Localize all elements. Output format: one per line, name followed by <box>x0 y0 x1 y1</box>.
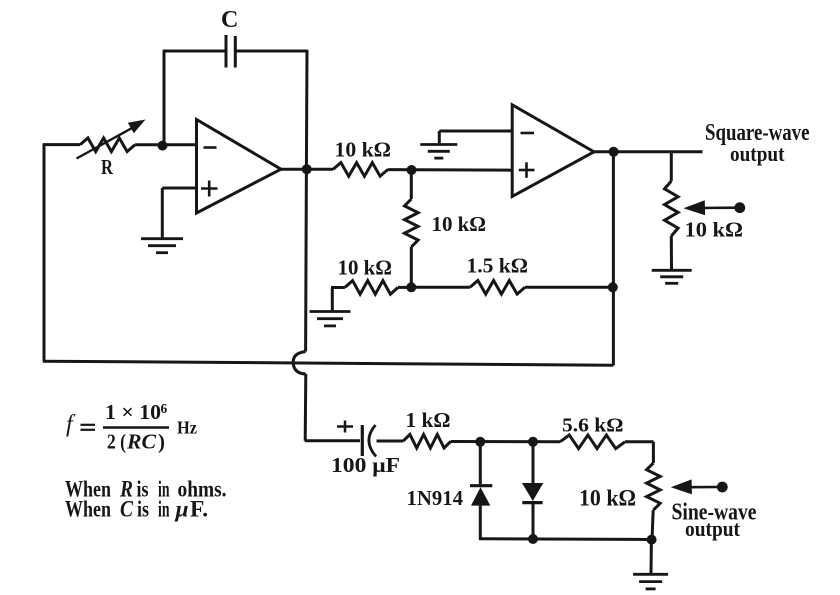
diode D2 triangle (pointing down) <box>522 483 543 501</box>
node dot at divider bottom junction <box>406 282 416 292</box>
label 10 kOhm (square pot) <box>685 218 744 242</box>
ground under U1 non-inverting input <box>141 239 183 253</box>
label 1N914 <box>407 486 464 510</box>
wire divider bottom junction to 1.5k <box>411 286 470 289</box>
svg-text:output: output <box>685 516 740 541</box>
svg-text:10 kΩ: 10 kΩ <box>338 256 393 280</box>
wire square pot bottom lead <box>670 236 673 270</box>
diode D1 1N914 triangle <box>471 487 490 505</box>
wire U2 output <box>593 150 703 153</box>
wire resistor to U2 plus input <box>388 168 513 172</box>
svg-text:f: f <box>66 412 76 438</box>
wire diode D2 top lead <box>532 442 535 483</box>
label output (sine) <box>685 516 740 541</box>
wire vertical below hop down to sine section <box>304 374 308 441</box>
diode D1 1N914 (pointing up) cathode bar <box>470 484 492 487</box>
wire 1.5k to U2 output vertical <box>525 286 613 289</box>
wire crossover hop over feedback wire <box>293 352 306 375</box>
label 1 kOhm <box>406 408 451 432</box>
wire U1 non-inverting input to ground <box>162 188 196 238</box>
wire feedback-loop top-left vertical <box>163 51 166 146</box>
op-amp U1 minus sign (inverting input) <box>204 146 217 149</box>
svg-text:10 kΩ: 10 kΩ <box>335 138 392 162</box>
svg-text:Hz: Hz <box>177 418 197 438</box>
op-amp U2 triangle <box>512 105 594 197</box>
svg-text:10 kΩ: 10 kΩ <box>579 486 636 511</box>
ground under sine pot <box>633 574 668 589</box>
wire 5.6k to sine pot top <box>625 442 654 463</box>
wire U2 inverting input to ground <box>439 131 512 145</box>
potentiometer 10k (sine) zigzag <box>647 463 661 510</box>
label R <box>101 155 113 179</box>
resistor 10k vertical (divider) <box>405 199 419 247</box>
node dot at sine pot bottom <box>647 535 657 545</box>
wire feedback-loop top horizontal right of C <box>235 50 307 53</box>
wire diode D1 anode lead <box>479 442 482 484</box>
capacitor 100uF polarity plus sign <box>337 421 353 433</box>
ground at left of grounded 10k resistor <box>310 312 351 326</box>
formula Hz <box>177 418 197 438</box>
op-amp U2 minus sign (inverting input) <box>521 132 535 135</box>
svg-text:10 kΩ: 10 kΩ <box>432 212 487 236</box>
wire far-left vertical <box>43 144 46 362</box>
svg-text:2 (: 2 ( <box>107 430 126 454</box>
formula fraction bar <box>103 426 169 428</box>
resistor 10k horizontal from U1 output <box>333 163 388 177</box>
svg-text:R: R <box>101 155 113 179</box>
wire U2 output vertical feedback <box>612 152 615 366</box>
svg-text:is: is <box>137 497 149 523</box>
svg-text:5.6 kΩ: 5.6 kΩ <box>562 415 624 437</box>
formula numerator 1 x 10^6 <box>105 400 168 424</box>
wire R to U1 inverting input <box>135 143 197 146</box>
resistor 1.5k horizontal <box>470 281 525 295</box>
wire diode D2 bottom lead <box>532 503 535 540</box>
op-amp U1 plus sign (non-inverting input) <box>201 181 218 197</box>
diode D2 cathode bar <box>522 501 542 504</box>
resistor 5.6k horizontal <box>560 435 625 449</box>
potentiometer 10k (square) zigzag <box>665 181 679 236</box>
svg-text:F.: F. <box>190 497 208 523</box>
wire hop bottom to capacitor <box>305 439 360 442</box>
resistor 1k horizontal <box>403 434 451 448</box>
node dot at U2 output <box>609 147 619 157</box>
ground under square pot <box>652 270 692 283</box>
svg-text:C: C <box>120 497 133 523</box>
resistor 10k horizontal grounded <box>345 281 398 295</box>
formula f = <box>66 412 95 438</box>
label 100 uF <box>331 453 400 477</box>
wire op-amp U1 output vertical down to crossover <box>304 169 308 352</box>
wire 1k to 5.6k (through diode taps) <box>451 440 560 443</box>
node dot at 1.5k / feedback junction <box>608 282 618 292</box>
resistor R (variable) zigzag <box>80 138 135 152</box>
label 10 kOhm (sine pot) <box>579 486 636 511</box>
wire sine shaper bottom rail <box>479 537 653 541</box>
label 5.6 kOhm <box>562 415 624 437</box>
svg-text:μ: μ <box>175 497 189 523</box>
wire sine ground lead <box>650 540 653 574</box>
label Square-wave <box>705 120 810 146</box>
capacitor 100uF plates <box>362 425 376 457</box>
note when C <box>65 497 208 523</box>
arrow wiper into square pot <box>684 200 736 215</box>
formula denominator 2 (RC) <box>107 430 165 454</box>
label 10 kOhm (vertical divider resistor) <box>432 212 487 236</box>
node dot at diode D1 top <box>475 437 485 447</box>
svg-text:6: 6 <box>161 401 168 416</box>
node dot at square wiper terminal <box>734 202 745 213</box>
arrow through R (variable-resistor arrow) <box>77 120 146 159</box>
node dot at sine wiper terminal <box>717 482 728 493</box>
svg-text:1 × 10: 1 × 10 <box>105 400 161 424</box>
node dot at U1 output <box>302 164 312 174</box>
wire sine pot bottom lead <box>652 510 653 540</box>
capacitor C plates <box>226 35 235 68</box>
capacitor C value label <box>221 7 238 33</box>
wire left lead into resistor R <box>43 143 80 146</box>
svg-text:1.5 kΩ: 1.5 kΩ <box>467 254 529 278</box>
ground at U2 inverting input <box>420 145 457 159</box>
wire op-amp U1 output vertical (cap to output node) <box>305 50 309 169</box>
svg-text:100 μF: 100 μF <box>331 453 400 477</box>
node dot at divider top junction <box>407 165 417 175</box>
wire feedback-loop top horizontal left of C <box>163 50 226 53</box>
wire feedback bottom horizontal <box>43 361 613 365</box>
svg-text:in: in <box>158 497 170 523</box>
op-amp U2 plus sign (non-inverting input) <box>519 162 535 178</box>
arrow wiper into sine pot <box>671 479 718 494</box>
wire U1 output <box>280 168 333 171</box>
svg-text:RC: RC <box>126 430 157 454</box>
svg-text:1N914: 1N914 <box>407 486 464 510</box>
wire grounded 10k to divider bottom junction <box>398 286 411 289</box>
svg-text:output: output <box>730 141 785 166</box>
node dot at U1 inverting input / feedback junction <box>158 141 168 151</box>
svg-text:1 kΩ: 1 kΩ <box>406 408 451 432</box>
svg-text:When: When <box>65 497 111 523</box>
label 10 kOhm (grounded resistor) <box>338 256 393 280</box>
note when R <box>65 477 227 503</box>
wire ground lead to 10k resistor <box>331 288 345 311</box>
label output (square) <box>730 141 785 166</box>
node dot at diode D2 top <box>528 437 538 447</box>
wire square pot top lead <box>670 152 673 181</box>
wire capacitor to 1k resistor <box>377 440 404 443</box>
node dot at D2 bottom <box>528 534 538 544</box>
label 1.5 kOhm <box>467 254 529 278</box>
svg-text:10 kΩ: 10 kΩ <box>685 218 744 242</box>
wire diode D1 bottom lead <box>479 506 482 540</box>
wire vertical resistor to bottom junction <box>410 247 413 287</box>
label 10 kOhm (U1 output resistor) <box>335 138 392 162</box>
svg-text:): ) <box>158 430 165 454</box>
label Sine-wave <box>672 499 757 526</box>
op-amp U1 triangle <box>197 120 282 214</box>
wire divider junction down to vertical resistor <box>410 170 413 199</box>
svg-text:C: C <box>221 7 238 33</box>
